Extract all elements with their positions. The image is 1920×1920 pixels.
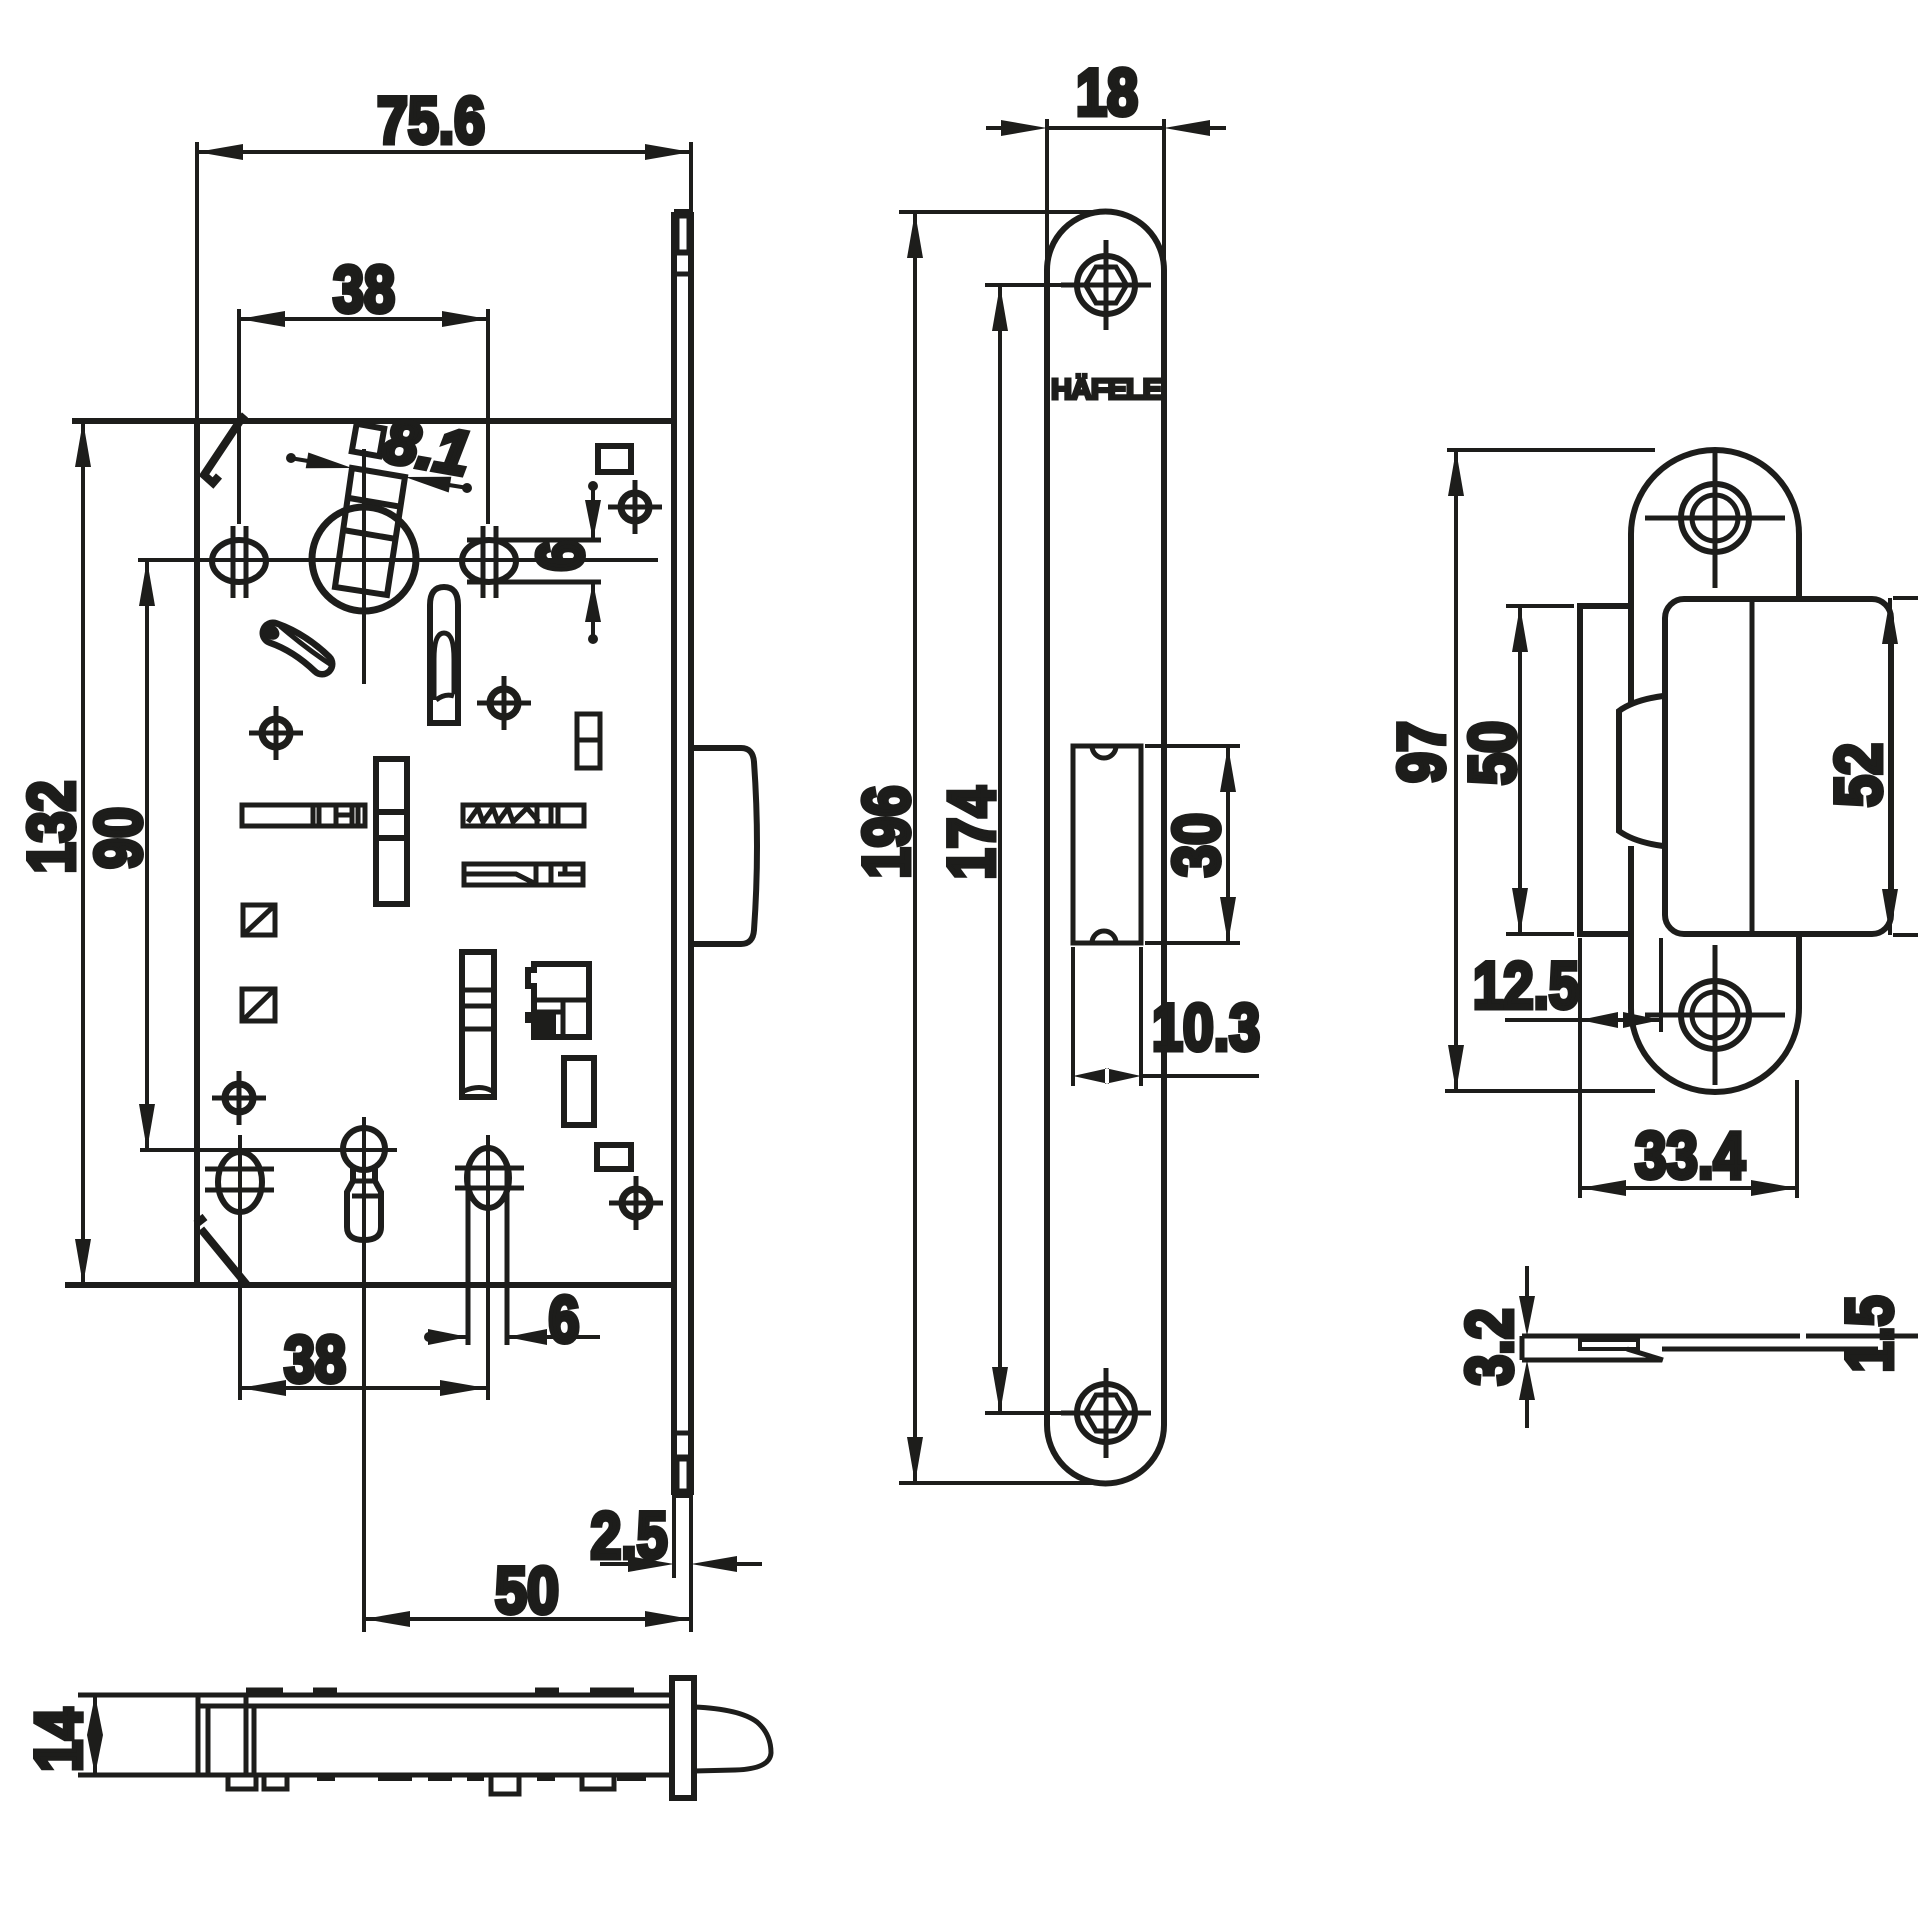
dim 50 line	[364, 1617, 691, 1621]
dim 18 arrows	[1001, 120, 1210, 136]
svg-text:52: 52	[1821, 743, 1895, 807]
dim 2.5 arrows	[628, 1556, 737, 1572]
bottom view top surface line	[78, 1693, 672, 1698]
svg-text:14: 14	[21, 1708, 95, 1772]
dim 12.5 line	[1505, 1018, 1661, 1022]
svg-text:50: 50	[1455, 721, 1529, 785]
ext line 38 right	[486, 309, 490, 524]
upper-right hole slot lines	[467, 540, 601, 582]
centerline keyhole axis	[140, 1148, 397, 1152]
dim 12.5 ext left	[1578, 938, 1582, 1198]
latch cutout notch bottom	[1092, 931, 1116, 943]
dim 6 top tails	[591, 484, 595, 641]
latch box	[1665, 599, 1891, 934]
latch ramp	[1619, 696, 1663, 846]
dim 90 arrows	[139, 560, 155, 1150]
centerline handle axis	[138, 558, 658, 562]
dim 14 line	[93, 1695, 97, 1775]
lower-right hole centerline	[486, 1135, 490, 1400]
lower-right hole slot marks	[455, 1168, 524, 1188]
follower bar divisions	[343, 498, 402, 539]
svg-text:30: 30	[1159, 813, 1233, 877]
detent capsule	[430, 587, 458, 723]
keyhole shaft inner lines	[352, 1181, 378, 1196]
svg-text:18: 18	[1076, 55, 1138, 129]
dim 50s line	[1518, 606, 1522, 934]
latch stop square 2	[242, 989, 275, 1021]
bottom view top bumps	[246, 1688, 634, 1697]
svg-text:HÄFELE: HÄFELE	[1051, 373, 1162, 406]
bottom view latch head	[694, 1707, 771, 1771]
ext line 75.6 left	[195, 142, 199, 421]
forend bottom end	[674, 1492, 691, 1498]
faceplate left side	[1044, 270, 1050, 1425]
dim 97 line	[1454, 450, 1458, 1091]
svg-text:12.5: 12.5	[1473, 948, 1579, 1022]
dim 174 arrows	[992, 285, 1008, 1413]
latch stop square 1	[243, 905, 275, 935]
spring pin inner line	[280, 626, 333, 666]
dim 52 ext lines	[1893, 598, 1918, 935]
lower-right screw hole	[467, 1148, 509, 1208]
lock case right edge / forend inner face	[671, 212, 677, 1495]
dim 6 bottom tails	[427, 1335, 600, 1339]
strike plate right edge	[1796, 534, 1802, 1008]
dim 10.3 line	[1141, 1074, 1259, 1078]
forend top end	[674, 209, 691, 215]
svg-text:6: 6	[523, 541, 597, 572]
dim 50 arrows	[364, 1611, 691, 1627]
dim 12.5 ext right	[1659, 938, 1663, 1032]
central lever bar	[376, 759, 407, 904]
lower-left hole slot marks	[205, 1169, 274, 1190]
chamfer mark bottom-left	[196, 1217, 247, 1285]
svg-text:10.3: 10.3	[1152, 990, 1260, 1064]
svg-text:75.6: 75.6	[377, 83, 485, 157]
dim 10.3 ext lines	[1073, 947, 1141, 1086]
svg-text:6: 6	[549, 1282, 580, 1356]
bottom view inner top line	[198, 1704, 672, 1709]
dim 6 top arrows	[585, 500, 601, 622]
strike profile left cap	[1520, 1336, 1525, 1360]
dim 10.3 arrows	[1073, 1068, 1141, 1084]
dim 38 top line	[239, 317, 488, 321]
dim 174 ext bottom	[985, 1411, 1062, 1415]
dim 75.6 arrows	[197, 144, 691, 160]
dim 38 bottom arrows	[240, 1380, 486, 1396]
faceplate bottom cap	[1047, 1425, 1164, 1484]
svg-text:132: 132	[14, 781, 88, 874]
svg-text:8.1: 8.1	[379, 407, 476, 490]
latch guide piece	[577, 714, 600, 768]
dim 3.2 arrows	[1519, 1296, 1535, 1400]
dim 97 arrows	[1448, 450, 1464, 1091]
dim 52 line	[1888, 598, 1892, 935]
keyhole shaft	[347, 1167, 381, 1240]
ext line 75.6 right	[689, 142, 693, 212]
strike profile ramp diagonal	[1627, 1349, 1663, 1360]
lower-left hole centerline	[238, 1135, 242, 1400]
strike plate left edge	[1628, 534, 1634, 1008]
crosshair mark C	[477, 676, 531, 730]
svg-text:38: 38	[284, 1322, 346, 1396]
bottom view faceplate section	[672, 1678, 694, 1798]
lock case bottom edge	[65, 1282, 674, 1288]
bottom screw hole cross	[1061, 1368, 1151, 1458]
guide capsule lower	[462, 952, 494, 1097]
detent capsule inner	[434, 633, 454, 700]
lower bar right	[464, 864, 583, 885]
transfer bar left	[242, 805, 365, 826]
dim 196 ext bottom	[899, 1481, 1110, 1485]
latch bolt side view	[692, 748, 757, 944]
strike bottom screw hole	[1645, 945, 1785, 1085]
dim 174 ext top	[985, 283, 1062, 287]
ext line 38 left	[237, 309, 241, 524]
dim 6 bottom arrows	[428, 1329, 547, 1345]
upper-right screw hole	[462, 540, 516, 582]
lower-left screw hole	[218, 1152, 262, 1212]
svg-text:3.2: 3.2	[1452, 1309, 1526, 1386]
upper-right hole slot marks	[483, 526, 496, 598]
small window bottom-right	[597, 1145, 631, 1169]
strike plate lip	[1580, 606, 1631, 934]
dim 30 ext lines	[1145, 746, 1240, 943]
top screw hole hex	[1086, 267, 1127, 303]
strike profile thin bottom line	[1662, 1347, 1878, 1352]
faceplate side ext left	[1045, 119, 1049, 270]
dim 132 arrows	[75, 421, 91, 1285]
dim 75.6 line	[197, 150, 691, 154]
top screw hole circle	[1077, 256, 1135, 314]
strike profile top line	[1522, 1334, 1918, 1339]
faceplate right side	[1161, 270, 1167, 1425]
faceplate top cap	[1047, 212, 1164, 270]
forend bottom ticks	[674, 1433, 691, 1457]
keyhole centerline / dim 50 ext	[362, 1117, 366, 1632]
spring bar right	[463, 805, 584, 826]
dim 132 line	[81, 421, 85, 1285]
spring pin end cap	[260, 621, 283, 643]
dim 8.1 arrow upper	[290, 458, 308, 461]
small window top-right	[598, 446, 631, 472]
dim 196 arrows	[907, 212, 923, 1483]
lock case top edge	[72, 418, 674, 424]
dim 33.4 line	[1580, 1186, 1797, 1190]
latch box fold line	[1750, 602, 1755, 931]
small plate lower	[564, 1058, 594, 1125]
latch cutout notch top	[1092, 746, 1116, 758]
svg-text:1.5: 1.5	[1832, 1296, 1906, 1373]
bracket part	[528, 964, 589, 1037]
dim 18 line	[1047, 126, 1164, 130]
dim 33.4 ext right	[1795, 1080, 1799, 1198]
dim 3.2 tails	[1525, 1266, 1529, 1428]
upper-left screw hole	[212, 540, 266, 582]
dim 174 line	[998, 285, 1002, 1413]
dim 50s arrows	[1512, 606, 1528, 934]
latch cutout	[1073, 746, 1141, 943]
strike profile bottom thick line	[1522, 1358, 1662, 1363]
dim 30 arrows	[1220, 746, 1236, 943]
lock case left edge	[194, 421, 200, 1285]
bottom view lower ticks	[317, 1775, 646, 1781]
lower-right hole slot lines	[468, 1167, 507, 1345]
crosshair mark A	[608, 480, 662, 534]
follower vertical centerline	[362, 449, 366, 684]
dim 50s ext lines	[1506, 606, 1574, 934]
crosshair mark E	[609, 1176, 663, 1230]
dim 38 top arrows	[239, 311, 488, 327]
forend outer face	[688, 212, 694, 1495]
dim 14 arrows	[87, 1695, 103, 1775]
dim 2.5 tails	[600, 1562, 762, 1566]
bottom view left end	[198, 1695, 254, 1775]
bottom screw hole hex	[1086, 1395, 1127, 1431]
svg-text:50: 50	[495, 1553, 559, 1627]
dim 12.5 arrows	[1580, 1012, 1661, 1028]
dim 196 ext top	[899, 210, 1110, 214]
svg-text:38: 38	[333, 252, 395, 326]
upper-left hole slot marks	[233, 526, 246, 598]
handle follower circle	[312, 507, 416, 611]
spindle square symbol	[352, 424, 384, 456]
strike plate bottom cap	[1631, 1008, 1799, 1092]
faceplate side ext right	[1162, 119, 1166, 270]
follower bar	[335, 468, 405, 595]
svg-text:2.5: 2.5	[591, 1498, 668, 1572]
top screw hole cross	[1061, 240, 1151, 330]
bottom view bottom line	[78, 1773, 672, 1778]
dim 50 ext right	[689, 1495, 693, 1632]
forend top detail box	[677, 216, 689, 252]
svg-text:90: 90	[81, 807, 155, 869]
svg-text:174: 174	[934, 786, 1008, 879]
chamfer mark top-left	[204, 415, 245, 483]
keyhole circle	[343, 1128, 385, 1170]
forend top ticks	[674, 253, 691, 274]
bottom screw hole circle	[1077, 1384, 1135, 1442]
dim 33.4 arrows	[1580, 1180, 1797, 1196]
strike plate top cap	[1631, 450, 1799, 534]
dim 18 tails	[986, 126, 1226, 130]
dim 52 arrows	[1882, 598, 1898, 935]
dim 8.1 arrow lower	[449, 485, 468, 488]
svg-text:97: 97	[1384, 721, 1458, 783]
strike top screw hole	[1645, 448, 1785, 588]
strike profile slot	[1580, 1340, 1638, 1349]
dim 30 line	[1226, 746, 1230, 943]
crosshair mark D	[212, 1071, 266, 1125]
bottom view lower tabs	[228, 1775, 614, 1794]
dim 97 ext top	[1447, 448, 1655, 452]
dim 97 ext bottom	[1445, 1089, 1655, 1093]
crosshair mark B	[249, 706, 303, 760]
dim 2.5 ext left	[672, 1495, 676, 1578]
forend bottom detail box	[677, 1459, 689, 1491]
dim 90 line	[145, 560, 149, 1150]
dim 38 bottom line	[240, 1386, 486, 1390]
spring pin	[273, 633, 322, 664]
dim 196 line	[913, 212, 917, 1483]
svg-text:33.4: 33.4	[1635, 1118, 1745, 1192]
dim 6 top dots	[588, 481, 598, 491]
svg-text:196: 196	[849, 786, 923, 879]
dim 6 bottom dots	[424, 1332, 434, 1342]
